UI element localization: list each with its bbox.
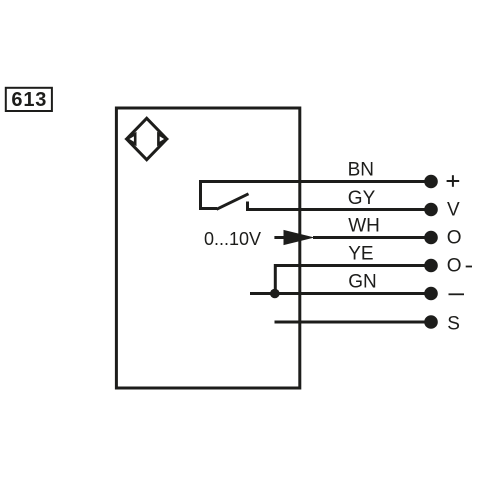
wire YE to O-	[274, 264, 429, 267]
svg-text:S: S	[447, 313, 460, 334]
svg-text:WH: WH	[348, 216, 380, 237]
terminal O-	[424, 259, 438, 273]
svg-text:YE: YE	[348, 244, 373, 265]
wire S	[275, 321, 430, 324]
wire YE-to-GN vertical link	[274, 264, 277, 294]
svg-text:613: 613	[11, 89, 47, 111]
terminal label O-	[447, 256, 472, 277]
switch (NO contact)	[199, 182, 249, 210]
svg-text:BN: BN	[348, 159, 374, 180]
amplifier (analog output driver)	[274, 230, 314, 245]
terminal O	[424, 231, 438, 245]
figure label 613	[6, 88, 52, 111]
wire GN to -	[275, 292, 429, 295]
junction dot	[270, 289, 280, 299]
wire BN to +	[199, 180, 429, 183]
svg-text:V: V	[447, 199, 460, 220]
terminal label +	[447, 175, 460, 187]
terminal minus	[424, 287, 438, 301]
terminal +	[424, 175, 438, 189]
svg-text:GN: GN	[348, 272, 377, 293]
terminal label -	[449, 293, 465, 295]
wire WH to O	[313, 236, 429, 239]
terminal V	[424, 203, 438, 217]
svg-text:GY: GY	[348, 188, 376, 209]
sensor symbol (diamond with side triangles)	[127, 118, 167, 159]
wire GN stub	[250, 292, 275, 295]
terminal S	[424, 315, 438, 329]
wire GY to V	[246, 208, 429, 211]
svg-text:O: O	[447, 228, 462, 249]
svg-text:O: O	[447, 256, 462, 277]
svg-text:0...10V: 0...10V	[204, 229, 261, 249]
sensor body outline	[116, 108, 299, 388]
